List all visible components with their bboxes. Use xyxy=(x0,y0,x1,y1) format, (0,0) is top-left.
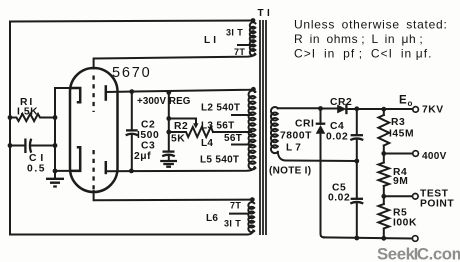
svg-text:0.5: 0.5 xyxy=(27,164,46,175)
svg-text:CR2: CR2 xyxy=(330,97,352,108)
svg-text:L6: L6 xyxy=(206,213,218,224)
wire: V1A cathode to ground bus xyxy=(55,88,71,179)
junction: L6 top / V1B grid wire xyxy=(250,197,255,202)
svg-text:I500: I500 xyxy=(137,130,159,141)
junction: C4 top / HV rail xyxy=(354,106,359,111)
svg-text:C2: C2 xyxy=(141,120,155,131)
junction: C1 right / cathode bus xyxy=(53,143,58,148)
winding L7 (HV secondary) xyxy=(271,107,278,153)
tap stub 7T/31T (L6) xyxy=(230,213,248,215)
capacitor C3 xyxy=(163,150,175,152)
potentiometer R2 5K: wiper arm xyxy=(169,119,196,123)
V1A plate xyxy=(105,85,108,101)
svg-text:R3: R3 xyxy=(391,117,405,128)
wire: bottom-left rail to L6 bottom xyxy=(10,231,253,235)
svg-text:5670: 5670 xyxy=(112,65,151,81)
wire: grid of V1B to L6 top xyxy=(94,191,252,200)
wire: 400V tap xyxy=(384,153,413,155)
svg-text:I45M: I45M xyxy=(389,129,414,140)
svg-text:+300V REG: +300V REG xyxy=(137,96,191,107)
svg-text:56T: 56T xyxy=(224,133,242,144)
tap stub L4/L5 xyxy=(232,144,252,146)
wire: top feedback rail from L1 top to left edge xyxy=(10,21,253,235)
wire: +300V plate rail V1A plate to L2 top xyxy=(106,90,255,92)
diode CR2 xyxy=(337,105,346,114)
junction: L7 top / CR1 / CR2 xyxy=(318,106,323,111)
bottom rail (right HV return) xyxy=(324,237,412,238)
potentiometer R2 body xyxy=(169,127,213,137)
junction: V1B cathode / cathode bus xyxy=(53,169,58,174)
capacitor C4 xyxy=(351,134,363,136)
V1A cathode xyxy=(71,88,81,102)
svg-text:L2 540T: L2 540T xyxy=(201,103,240,114)
svg-text:POINT: POINT xyxy=(420,199,454,210)
svg-text:R2: R2 xyxy=(174,121,188,132)
svg-text:L3 56T: L3 56T xyxy=(201,121,234,132)
resistor R5 xyxy=(378,204,389,229)
junction: L2 top / +300V rail xyxy=(251,87,256,92)
V1B plate xyxy=(105,161,108,174)
svg-text:0.02: 0.02 xyxy=(326,132,348,143)
wire: R2/C3 branch from +300V rail xyxy=(168,92,170,151)
wire: V1B plate to L5 bottom xyxy=(106,167,255,171)
svg-text:I.5K: I.5K xyxy=(17,107,38,118)
svg-text:C>I in pf ; C<I in μf.: C>I in pf ; C<I in μf. xyxy=(294,47,432,61)
wire: C4/C5 branch xyxy=(356,109,358,238)
winding L2 L3 (upper half) xyxy=(249,91,256,170)
top HV rail with diode CR2 xyxy=(321,108,413,111)
junction: C1 left / feedback rail xyxy=(8,143,13,148)
junction: R5 bottom / return rail xyxy=(381,236,386,241)
svg-text:C4: C4 xyxy=(330,121,344,132)
wire: C2 branch (+300V rail to V1B plate node) xyxy=(131,92,133,130)
V1B grid (dashed) xyxy=(92,150,94,191)
tap stub 31T/7T (L1) xyxy=(238,44,252,46)
svg-text:400V: 400V xyxy=(422,151,447,162)
terminal 400V xyxy=(413,151,419,157)
capacitor C5 xyxy=(351,198,363,200)
svg-text:9M: 9M xyxy=(393,176,408,187)
resistor R1 xyxy=(10,114,55,121)
junction: R1 right / cathode bus xyxy=(53,115,58,120)
junction: R2-C3 branch / +300V rail xyxy=(166,90,171,95)
svg-text:2μf: 2μf xyxy=(134,151,151,162)
junction: C5 bottom / return rail xyxy=(354,236,359,241)
svg-text:L5 540T: L5 540T xyxy=(200,155,239,166)
wire: grid of V1A to L1 bottom (7T end) xyxy=(94,54,255,69)
svg-text:R in ohms ; L in μh ;: R in ohms ; L in μh ; xyxy=(294,32,423,46)
terminal Eo 7KV xyxy=(413,107,419,113)
capacitor C2 xyxy=(126,129,138,131)
svg-text:5K: 5K xyxy=(171,134,185,145)
junction: L1 top / feedback rail xyxy=(251,18,256,23)
junction: R3 top / HV rail xyxy=(381,107,386,112)
winding L6 xyxy=(248,202,254,232)
svg-text:C3: C3 xyxy=(141,141,155,152)
junction: R1 left / feedback rail xyxy=(8,115,13,120)
junction: C2 / +300V rail xyxy=(129,89,134,94)
wire: test point tap xyxy=(384,195,413,197)
svg-text:L4: L4 xyxy=(201,138,213,149)
svg-text:I00K: I00K xyxy=(393,218,417,229)
svg-text:Unless otherwise stated:: Unless otherwise stated: xyxy=(294,18,448,32)
svg-text:L I: L I xyxy=(204,35,216,46)
svg-text:7T: 7T xyxy=(234,47,245,57)
junction: R2 wiper arm xyxy=(166,116,171,121)
svg-text:3I T: 3I T xyxy=(226,28,243,38)
wire: tap L3/L4 junction to R2 xyxy=(213,131,251,133)
terminal HV return xyxy=(412,236,418,242)
V1A grid (dashed) xyxy=(92,76,94,113)
transformer T1 core xyxy=(260,20,266,235)
wire: L7 top to CR2/CR1 node xyxy=(278,107,321,109)
svg-text:CRI: CRI xyxy=(295,119,314,130)
svg-text:(NOTE I): (NOTE I) xyxy=(269,166,311,177)
svg-text:E: E xyxy=(399,95,407,107)
diode CR1 (shunt) xyxy=(320,109,322,125)
svg-text:T I: T I xyxy=(258,8,271,19)
junction: R4-R5 / test point tap xyxy=(381,194,386,199)
svg-text:3I T: 3I T xyxy=(224,219,241,229)
capacitor C1 xyxy=(10,145,25,147)
resistor R3 xyxy=(378,115,389,146)
divider branch R3 R4 R5 xyxy=(383,109,385,115)
V1B cathode xyxy=(71,147,81,171)
winding L1 xyxy=(250,22,256,55)
ground (C3) xyxy=(160,161,177,167)
resistor R4 xyxy=(378,163,389,187)
ground (cathode bus) xyxy=(46,179,64,187)
junction: C2 / V1B plate wire xyxy=(129,169,134,174)
svg-text:o: o xyxy=(408,99,413,108)
svg-text:0.02: 0.02 xyxy=(328,193,350,204)
wire: L7 bottom to C4/C5 midpoint xyxy=(278,152,357,161)
wire: V1B cathode to ground bus xyxy=(55,170,80,172)
tap stub L2/L3 xyxy=(232,114,252,116)
terminal TEST POINT xyxy=(413,194,419,200)
junction: L7 bottom / C4-C5 midpoint xyxy=(354,159,359,164)
junction: R2 lower end xyxy=(166,130,171,135)
svg-text:SeekIC.com: SeekIC.com xyxy=(377,245,460,262)
svg-text:C I: C I xyxy=(29,153,44,164)
tube V1 5670 envelope xyxy=(70,68,118,192)
svg-text:L 7: L 7 xyxy=(286,143,301,154)
junction: R3-R4 / 400V tap xyxy=(381,151,386,156)
svg-text:7800T: 7800T xyxy=(280,131,312,142)
svg-text:7T: 7T xyxy=(230,201,241,211)
svg-text:7KV: 7KV xyxy=(422,105,444,116)
